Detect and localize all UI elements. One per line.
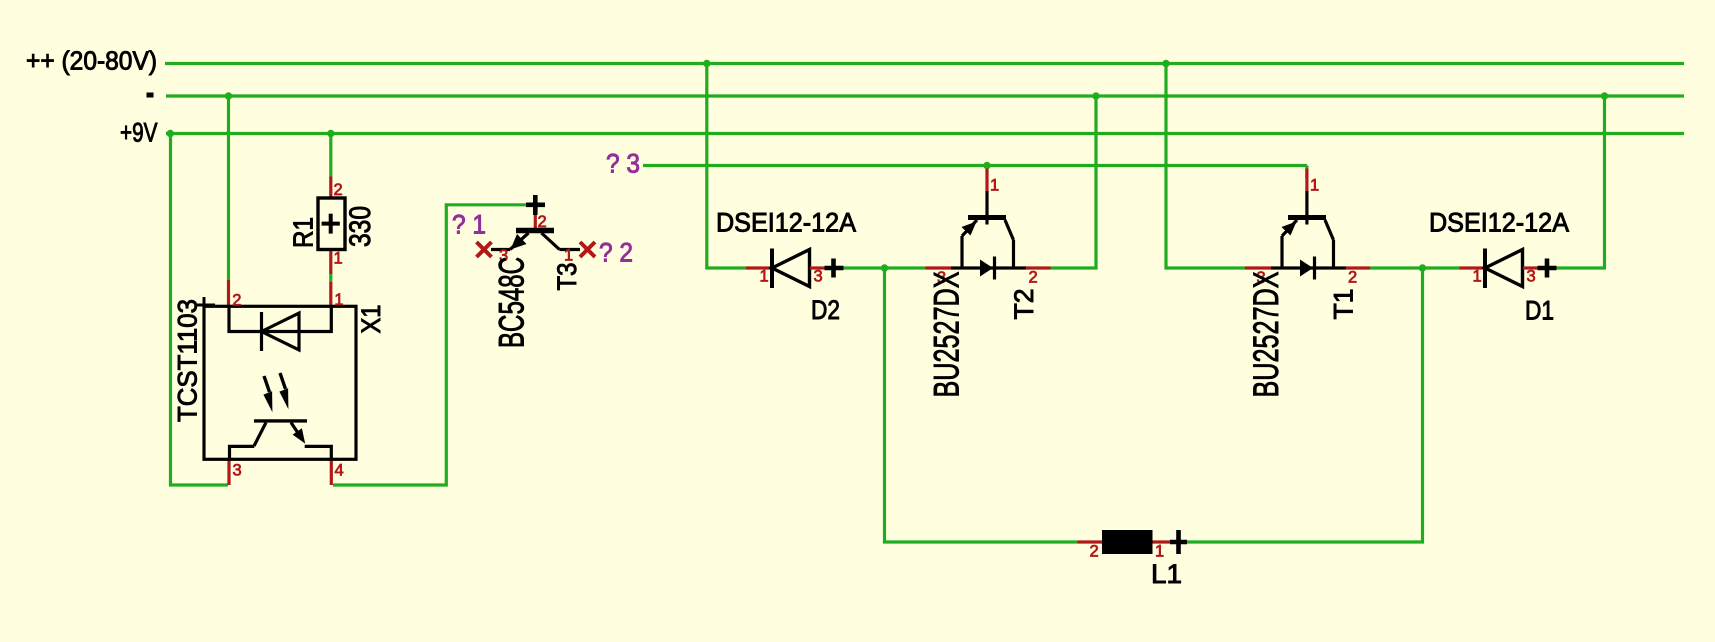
wire T2 pin2 to - rail riser <box>1051 96 1097 268</box>
T2 bottom lead with internal diode <box>951 266 1026 269</box>
svg-text:3: 3 <box>233 462 242 480</box>
L1 body block <box>1102 530 1153 554</box>
X1 internal LED bracket <box>229 306 331 331</box>
X1 body outline <box>204 306 356 459</box>
svg-text:D1: D1 <box>1525 296 1554 326</box>
D2 pin 1 stub <box>746 266 772 269</box>
wire D1 cathode-side to - rail riser <box>1557 96 1605 268</box>
D2 triangle <box>772 250 810 287</box>
T1 pin 3 / pin 2 stubs <box>1245 266 1271 269</box>
svg-text:3: 3 <box>814 268 823 286</box>
wire +9V to X1 pin3 (left drop) <box>171 134 229 486</box>
node junction ++ / T1 drop <box>1162 60 1169 67</box>
svg-text:1: 1 <box>1473 268 1482 286</box>
T1 emitter with arrow <box>1282 220 1297 236</box>
wire ?3 corner down to T1 pin1 <box>1305 166 1308 179</box>
X1 light coupling arrows <box>264 376 270 392</box>
svg-text:T3: T3 <box>552 263 582 291</box>
svg-text:1: 1 <box>1310 177 1319 195</box>
svg-text:1: 1 <box>990 177 999 195</box>
svg-text:1: 1 <box>334 250 343 268</box>
node junction - / T2 riser <box>1092 92 1099 99</box>
transistor T1 BU2527DX <box>1245 169 1370 398</box>
L1 + mark <box>1170 540 1187 545</box>
T2 pin 3 / pin 2 stubs <box>926 266 952 269</box>
T1 collector lead <box>1325 220 1334 240</box>
svg-text:1: 1 <box>1155 543 1164 561</box>
svg-text:? 2: ? 2 <box>599 238 633 268</box>
D1 pin 3 stub <box>1523 266 1538 269</box>
T1 pin 1 stub and number <box>1305 169 1308 192</box>
wire - rail to X1 pin2 <box>227 96 230 280</box>
D1 cathode bar <box>1483 249 1487 289</box>
svg-text:++ (20-80V): ++ (20-80V) <box>26 46 157 76</box>
svg-text:2: 2 <box>1029 269 1038 287</box>
T2 base lead <box>985 191 988 225</box>
svg-text:BU2527DX: BU2527DX <box>927 272 967 398</box>
X1 pin stubs 1,2,3,4 <box>227 280 230 306</box>
wire net ?3 horizontal <box>643 164 1307 167</box>
D2 cathode bar <box>770 249 774 289</box>
svg-text:BC548C: BC548C <box>492 257 532 348</box>
node junction T1 row / L1 right <box>1419 264 1426 271</box>
wire L1 right branch <box>1187 268 1423 542</box>
svg-text:3: 3 <box>1527 268 1536 286</box>
T2 emitter with arrow <box>962 220 977 236</box>
X1 internal LED diode <box>260 312 263 351</box>
R1 polarity + mark <box>322 222 340 226</box>
T3 pin 2 + mark <box>526 203 545 208</box>
inductor L1 <box>1078 530 1188 589</box>
T2 collector lead <box>1005 220 1014 240</box>
svg-text:DSEI12-12A: DSEI12-12A <box>1429 208 1569 238</box>
svg-text:2: 2 <box>1348 269 1357 287</box>
svg-text:1: 1 <box>564 247 573 265</box>
L1 pin 1 stub <box>1153 540 1173 543</box>
svg-text:T2: T2 <box>1009 289 1039 320</box>
T1 bottom lead with internal diode <box>1271 266 1346 269</box>
X1 phototransistor <box>254 419 307 422</box>
X1 polarity + mark <box>197 304 215 307</box>
T3 unconnected pin 3 X mark <box>477 242 492 257</box>
wire L1 left branch <box>885 268 1078 542</box>
transistor T2 BU2527DX <box>926 169 1051 398</box>
svg-text:+9V: +9V <box>120 118 158 148</box>
svg-text:T1: T1 <box>1329 289 1359 320</box>
svg-text:L1: L1 <box>1151 559 1182 589</box>
svg-text:2: 2 <box>334 181 343 199</box>
svg-text:2: 2 <box>1090 543 1099 561</box>
wire +9V to R1 pin2 <box>329 134 332 177</box>
svg-text:DSEI12-12A: DSEI12-12A <box>716 208 856 238</box>
T3 emitter with arrow <box>510 233 529 250</box>
node junction D2-T2 / L1 left <box>881 264 888 271</box>
diode D2 DSEI12-12A <box>716 208 856 326</box>
T3 base bar <box>516 228 554 234</box>
node junction +9V left <box>167 130 174 137</box>
wire D2 anode to T2 emitter row <box>844 266 926 269</box>
T1 base bar <box>1288 215 1326 220</box>
wire ++ rail drop to D2 row <box>707 64 746 269</box>
svg-text:1: 1 <box>334 291 343 309</box>
D1 triangle <box>1485 250 1523 287</box>
svg-text:330: 330 <box>344 206 377 247</box>
node - rail label <box>147 93 154 98</box>
resistor R1 <box>288 177 377 275</box>
R1 pin 1 stub <box>329 250 332 275</box>
svg-text:2: 2 <box>232 292 241 310</box>
L1 pin 2 stub <box>1078 540 1103 543</box>
svg-text:4: 4 <box>335 462 344 480</box>
wire ++ rail <box>165 62 1684 65</box>
T3 collector lead <box>542 233 560 250</box>
D2 + mark <box>825 266 844 271</box>
R1 pin 2 stub <box>329 177 332 199</box>
T3 unconnected pin 1 X mark <box>580 242 595 257</box>
svg-text:R1: R1 <box>288 217 319 248</box>
node junction - / X1 pin2 <box>225 92 232 99</box>
wire T1 pin2 to D1 <box>1370 266 1460 269</box>
svg-text:1: 1 <box>760 268 769 286</box>
D2 pin 3 stub <box>810 266 825 269</box>
node junction ?3 / T2 pin1 <box>983 162 990 169</box>
node junction - / D1 riser <box>1601 92 1608 99</box>
D1 + mark <box>1538 266 1557 271</box>
wire R1 pin1 to X1 pin1 (short link) <box>329 274 332 282</box>
R1 body box <box>318 198 345 250</box>
svg-text:? 3: ? 3 <box>606 149 640 179</box>
T3 pin 2 stub and number <box>534 215 537 233</box>
svg-text:BU2527DX: BU2527DX <box>1246 272 1286 398</box>
wire X1 pin4 to T3 collector <box>333 205 530 485</box>
wire ++ rail drop to T1 row <box>1166 64 1245 269</box>
D1 pin 1 stub <box>1460 266 1485 269</box>
T2 pin 1 stub and number <box>985 169 988 192</box>
svg-text:TCST1103: TCST1103 <box>173 299 203 422</box>
svg-text:? 1: ? 1 <box>452 210 486 240</box>
transistor T3 BC548C <box>477 195 596 348</box>
T1 base lead <box>1305 191 1308 225</box>
svg-text:X1: X1 <box>356 305 386 334</box>
wire +9V rail <box>166 132 1684 135</box>
node junction +9V / R1 <box>327 130 334 137</box>
svg-text:D2: D2 <box>811 295 840 325</box>
optocoupler X1 <box>173 280 387 485</box>
wire - rail <box>166 94 1684 97</box>
diode D1 DSEI12-12A <box>1429 208 1569 326</box>
node junction ++ / D2 drop <box>703 60 710 67</box>
T2 base bar <box>968 215 1006 220</box>
